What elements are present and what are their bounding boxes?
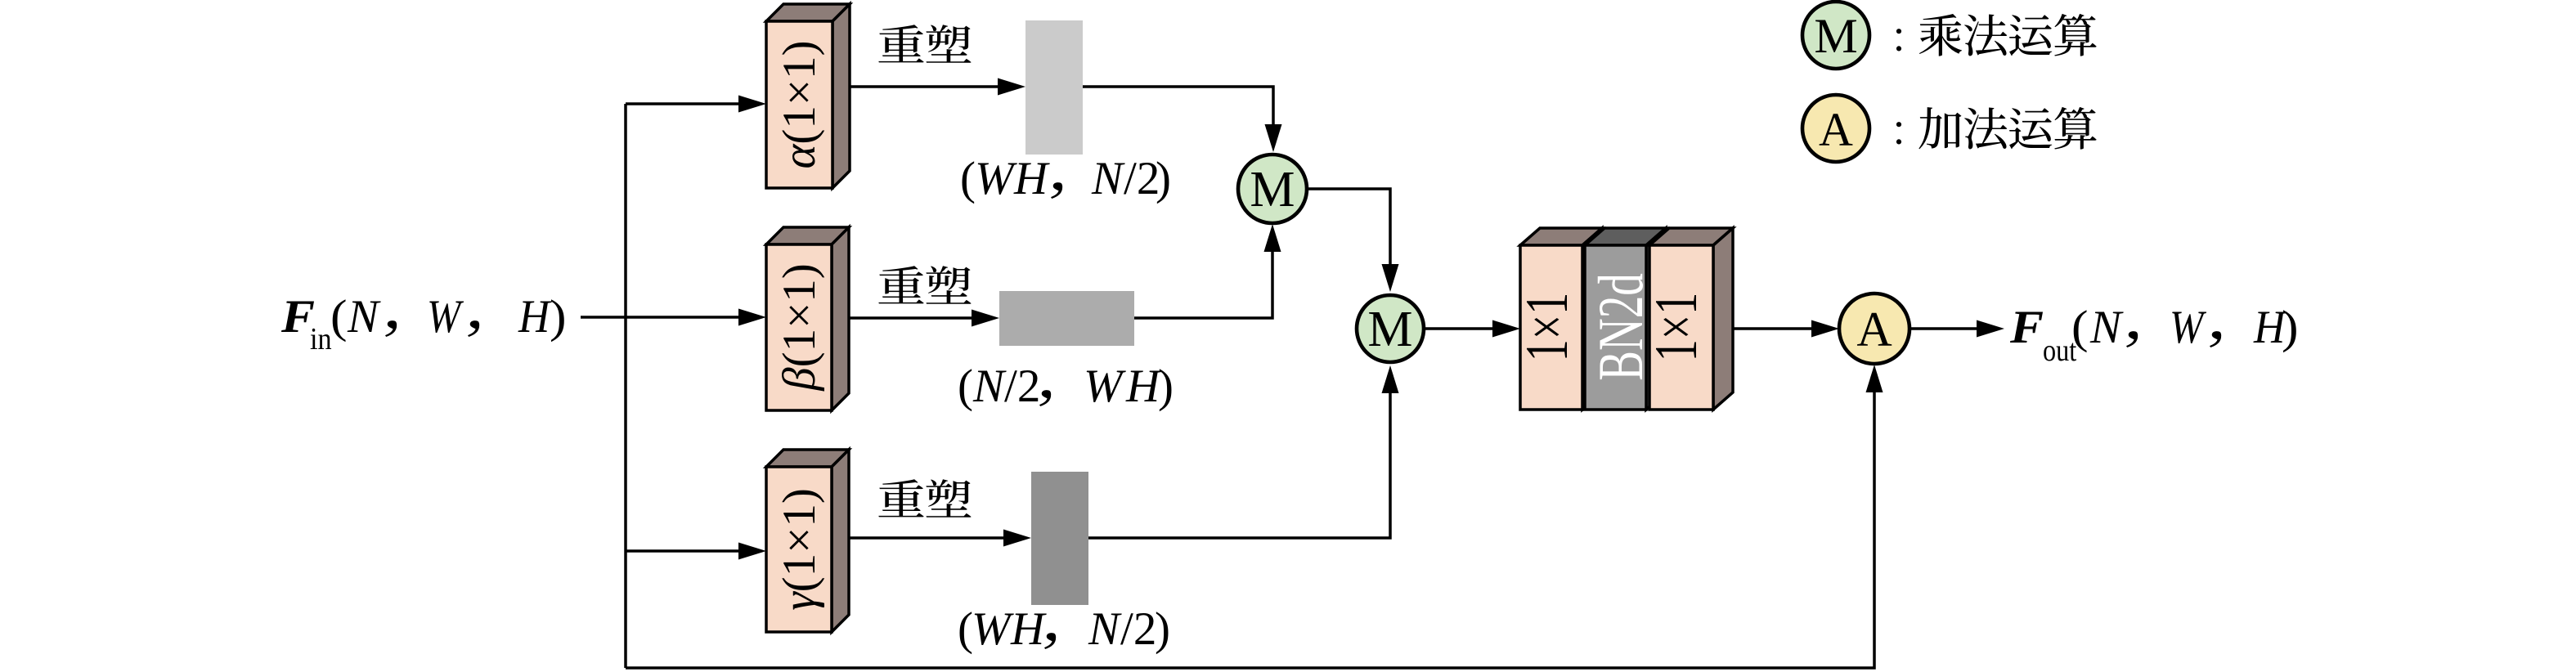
wire A to output <box>1910 320 2004 338</box>
reshape label 重塑 (beta) <box>878 266 971 304</box>
svg-text:N: N <box>347 291 381 343</box>
svg-text:W: W <box>1084 361 1126 412</box>
input feature label F_in(N, W, H) <box>280 290 567 356</box>
legend adder symbol A <box>1802 95 1869 162</box>
svg-text:N: N <box>972 361 1007 412</box>
multiplier node M2 <box>1357 295 1424 362</box>
wire branch to gamma conv <box>626 543 766 560</box>
conv block slab BN2d (middle) <box>1585 228 1666 410</box>
svg-text:(: ( <box>330 290 348 342</box>
svg-text:α(1×1): α(1×1) <box>774 40 825 168</box>
wire alpha conv to matrix <box>850 78 1025 96</box>
wire gamma conv to matrix <box>849 530 1031 547</box>
wire M2 to conv block <box>1424 320 1520 338</box>
svg-text:): ) <box>1156 153 1171 204</box>
svg-text:H: H <box>1010 603 1047 655</box>
svg-text:in: in <box>310 321 332 356</box>
svg-text:W: W <box>972 603 1014 655</box>
feedback wire bottom to adder A <box>626 365 1883 668</box>
label (N/2, WH) beta <box>958 361 1174 412</box>
conv block slab 1x1 (right) <box>1643 228 1733 410</box>
conv box gamma(1x1) <box>766 450 849 632</box>
matrix beta (N/2,WH) <box>999 291 1134 346</box>
label (WH, N/2) gamma <box>958 603 1170 655</box>
svg-text:(: ( <box>958 361 973 412</box>
svg-text:/2: /2 <box>1004 361 1040 412</box>
svg-text:N: N <box>1091 153 1125 204</box>
wire branch to alpha conv <box>626 96 766 113</box>
svg-text:M: M <box>1250 162 1295 217</box>
conv block slab 1x1 (left) <box>1514 228 1602 410</box>
svg-text:M: M <box>1367 302 1412 357</box>
svg-text:A: A <box>1856 302 1892 356</box>
svg-text:W: W <box>2170 301 2206 353</box>
svg-text:W: W <box>427 290 464 343</box>
svg-text:N: N <box>2089 302 2124 353</box>
svg-text:W: W <box>975 153 1017 204</box>
svg-text:H: H <box>518 290 552 342</box>
svg-text:A: A <box>1819 103 1853 156</box>
wire alpha matrix to multiplier M1 <box>1083 87 1282 152</box>
svg-text:): ) <box>1158 361 1174 412</box>
svg-text:H: H <box>1125 361 1162 412</box>
svg-text:β(1×1): β(1×1) <box>774 263 825 392</box>
reshape label 重塑 (alpha) <box>878 25 971 63</box>
adder node A <box>1839 293 1910 364</box>
svg-text:1×1: 1×1 <box>1643 293 1710 361</box>
svg-text:): ) <box>2282 301 2299 352</box>
svg-text:γ(1×1): γ(1×1) <box>774 488 825 611</box>
svg-text:/2: /2 <box>1124 153 1160 204</box>
svg-text:): ) <box>1155 603 1170 655</box>
multiplier node M1 <box>1238 155 1307 223</box>
legend multiplier symbol M <box>1802 2 1869 69</box>
wire M1 to M2 <box>1307 189 1399 292</box>
svg-text:(: ( <box>2071 301 2089 352</box>
svg-text:N: N <box>1088 603 1122 655</box>
wire F_in to beta conv <box>581 309 766 326</box>
conv box alpha(1x1) <box>766 4 850 188</box>
svg-text:H: H <box>1013 153 1050 204</box>
svg-text:(: ( <box>960 153 976 204</box>
svg-text:1×1: 1×1 <box>1514 293 1581 361</box>
wire conv block to adder A <box>1733 320 1839 338</box>
reshape label 重塑 (gamma) <box>878 479 971 517</box>
wire gamma matrix to multiplier M2 <box>1088 365 1399 538</box>
matrix alpha (WH,N/2) <box>1025 20 1083 155</box>
svg-text:/2: /2 <box>1120 603 1156 655</box>
svg-text:M: M <box>1814 9 1857 63</box>
conv box beta(1x1) <box>766 227 849 410</box>
matrix gamma (WH,N/2) <box>1031 472 1088 605</box>
wire beta matrix to multiplier M1 <box>1134 224 1281 318</box>
branch node vertical wire <box>624 104 627 668</box>
legend text : multiplication 乘法运算 <box>1896 14 2097 56</box>
svg-text:): ) <box>550 290 567 342</box>
label (WH, N/2) alpha <box>960 153 1171 204</box>
wire beta conv to matrix <box>849 310 999 327</box>
output feature label F_out(N, W, H) <box>2009 301 2299 368</box>
svg-text:F: F <box>2009 301 2044 352</box>
legend text : addition 加法运算 <box>1896 107 2097 150</box>
